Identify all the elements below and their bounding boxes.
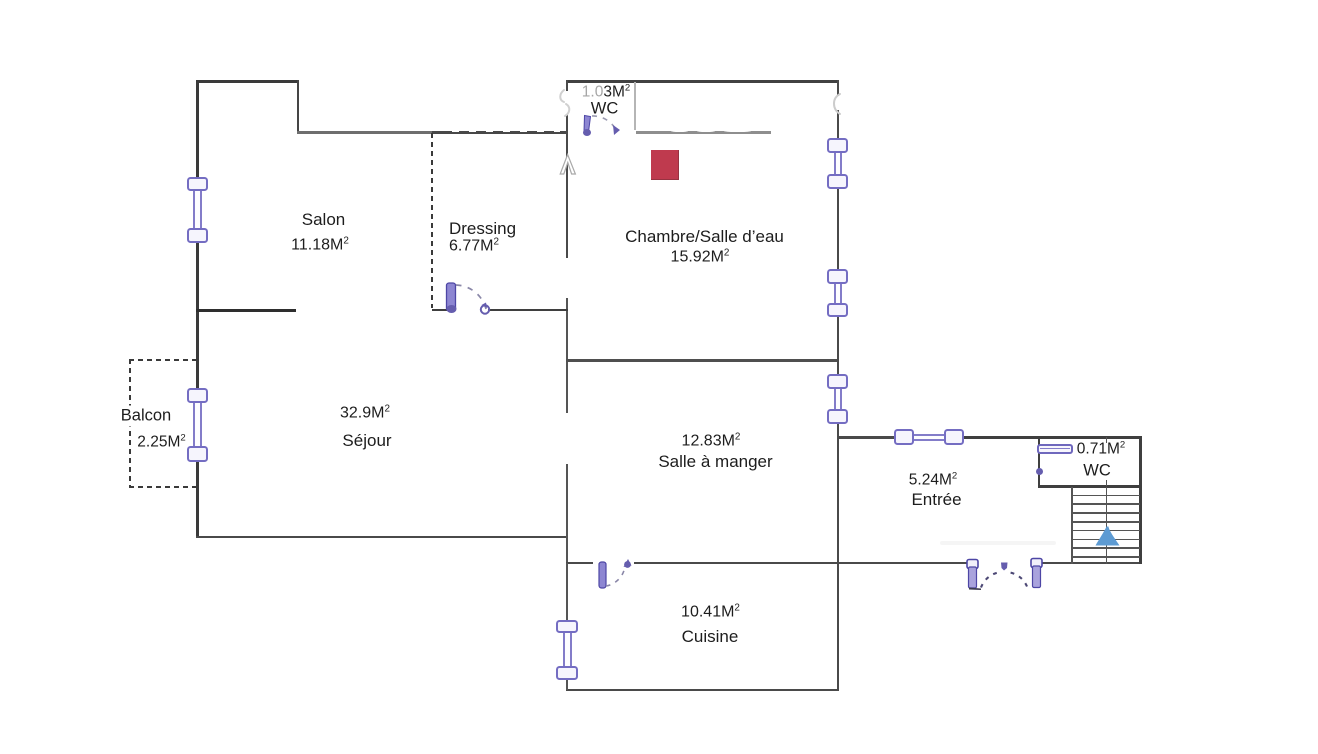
sejour bottom wall y537 [196,536,568,539]
window left-wall salon stem [193,189,202,229]
balcony dashed left [129,359,131,487]
window right-wall C cap top [827,374,849,389]
red square marker [651,150,679,180]
window right-wall B cap top [827,269,849,284]
kitchen left wall below window [566,679,569,690]
window left-wall balcony cap top [187,388,209,403]
label Salle a manger [658,452,772,472]
window right-wall A cap top [827,138,849,153]
small wc bottom wall [1038,485,1142,488]
stairs direction triangle [1092,525,1124,549]
watermark white scallop 3 [724,130,751,132]
center wall x567 lower segment [566,464,569,563]
entree bottom wall after door to stairs [1042,562,1141,565]
stairs treads [1072,495,1140,497]
watermark lambda ghost [559,153,577,175]
label small WC area [1077,439,1125,458]
window entree top cap left [894,429,915,445]
window left-wall balcony cap bottom [187,446,209,462]
watermark white scallop 1 [671,130,688,132]
label Sejour [342,431,391,451]
right wall x837 seg3 [837,317,840,375]
window left-wall salon cap top [187,177,209,191]
window kitchen cap bottom [556,666,578,680]
kitchen top wall right of door [634,562,839,565]
watermark white nick on right wall [836,96,840,110]
window right-wall A cap bottom [827,174,849,189]
label Salon [302,210,345,230]
label WC-top area value [582,82,630,101]
dressing bottom wall y309 [488,309,568,312]
stairs left edge [1071,487,1073,564]
faint smudge in entree [940,541,1056,545]
door kitchen (leaf, arc, arrow) [594,556,638,594]
entry double door arcs [960,554,1048,596]
door WC top (leaf, arc, arrow) [580,112,626,140]
balcony dashed top [129,359,197,361]
watermark white break on center wall [564,91,569,114]
label Balcon area [137,432,185,451]
label WC-top name [591,99,619,118]
wall step vertical x298 [297,80,300,133]
kitchen top / entree bottom wall left piece [566,562,593,565]
entree top wall right piece [964,436,1141,439]
label Cuisine [682,627,739,647]
label Dressing [449,219,516,239]
watermark white scallop 2 [697,130,715,132]
dressing bottom wall stub [432,309,448,312]
small wc left wall [1038,437,1041,487]
wall top Salon horizontal [196,80,299,83]
window right-wall C cap bottom [827,409,849,424]
window right-wall A stem [834,150,843,176]
stairs center tick above wc bottom [1106,480,1108,486]
bedroom bottom wall y360 [566,359,838,362]
dressing dashed wall x432 [431,133,433,308]
window left-wall salon cap bottom [187,228,209,243]
label Entree area [909,470,957,489]
salon partition wall y310 [196,309,296,312]
window kitchen left stem [563,630,572,667]
small wc vent window bar [1037,444,1073,454]
entree bottom wall to door [839,562,967,565]
window right-wall B stem [834,281,843,305]
kitchen bottom wall y690 [566,689,839,692]
door dressing (leaf, arc, arrow circle) [442,278,494,318]
wall corridor top grey left (y131) [297,131,432,134]
center wall x567 mid segment [566,298,569,413]
label Chambre area [671,247,730,266]
window entree top horizontal stem [912,434,945,441]
window entree top cap right [944,429,965,445]
label Sejour area [340,403,390,422]
right wall x837 seg1 [837,80,840,139]
window right-wall C stem [834,386,843,412]
label Cuisine area [681,602,740,621]
WC partition thin line x635 [634,82,636,130]
label Salle a manger area [682,431,741,450]
watermark ghost curve on right wall [828,92,844,116]
right wall x837 seg2 [837,188,840,270]
watermark ghost curls near break [556,88,574,118]
watermark white nicks on corridor wall [452,131,459,132]
left wall segment above window1 [196,80,199,177]
wall corridor top dark right (y131) [432,131,568,134]
label Salon area [291,235,349,254]
left wall segment between windows [196,242,199,388]
label small WC [1083,461,1111,480]
right edge wall x1140 [1139,436,1142,564]
small wc door hinge dot [1036,468,1043,475]
label Dressing area [449,236,499,255]
entree top wall left piece [838,436,894,439]
label Entree [911,490,961,510]
right wall x837 seg4 through entree to kitchen bottom [837,424,840,692]
wall top bedroom horizontal y81 [566,80,839,83]
wall grey wavy right of WC door (y132) [636,131,771,134]
window left-wall balcony stem [193,400,202,447]
balcony dashed bottom [129,486,197,488]
window kitchen cap top [556,620,578,633]
stairs center line [1106,487,1108,564]
window right-wall B cap bottom [827,303,849,318]
left wall segment below window2 [196,462,199,537]
center wall x567 top segment [566,80,569,258]
kitchen left wall above window [566,563,569,620]
label Chambre [625,227,784,247]
label Balcon [119,406,173,427]
stairs center tick top [1106,437,1108,443]
